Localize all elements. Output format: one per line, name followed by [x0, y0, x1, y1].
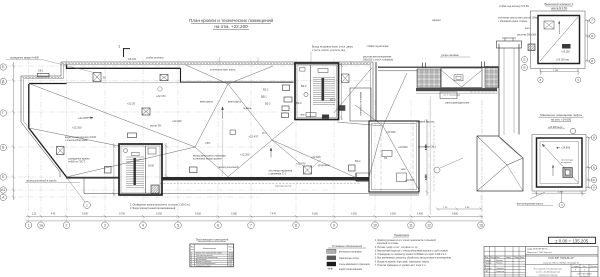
- svg-text:В2-3: В2-3: [296, 101, 302, 105]
- svg-text:Разраб.: Разраб.: [485, 260, 492, 262]
- right wing fan diagonals: [337, 73, 419, 190]
- svg-text:Лист: Лист: [582, 266, 586, 268]
- right part: [525, 255, 598, 277]
- svg-text:Стадия: Стадия: [572, 266, 578, 268]
- svg-text:h=600 по ГОСТ: h=600 по ГОСТ: [68, 161, 85, 164]
- svg-text:4.520: 4.520: [425, 174, 427, 180]
- left dimension line: [12, 62, 15, 200]
- svg-text:переход. мостик: переход. мостик: [275, 186, 292, 188]
- svg-text:на кровлю: на кровлю: [561, 162, 572, 164]
- svg-text:вентиляционная шахта: вентиляционная шахта: [517, 203, 543, 206]
- svg-text:стены машинного отделения: стены машинного отделения: [339, 264, 370, 266]
- svg-text:8: 8: [295, 224, 297, 228]
- technical room inner walls (axes 9-10): [334, 68, 372, 121]
- svg-text:В2-4: В2-4: [355, 159, 361, 163]
- svg-text:СК-1: СК-1: [38, 70, 44, 73]
- svg-text:7.90: 7.90: [229, 265, 233, 267]
- svg-text:стойка под антенны: стойка под антенны: [367, 45, 389, 48]
- svg-text:4.800: 4.800: [558, 192, 564, 194]
- extra vent unit near axis 3: [93, 73, 101, 82]
- svg-text:Н.контр.: Н.контр.: [485, 268, 493, 270]
- svg-text:11: 11: [409, 224, 413, 228]
- section mark 1: [124, 48, 131, 57]
- svg-text:7: 7: [191, 265, 192, 267]
- svg-text:В: В: [591, 34, 593, 38]
- machine room wing (axes 10-12): [356, 121, 419, 195]
- svg-text:В2-2: В2-2: [301, 84, 307, 88]
- svg-text:Б: Б: [593, 166, 595, 170]
- svg-text:с электрообогревом: с электрообогревом: [65, 139, 88, 142]
- svg-text:+22.470: +22.470: [156, 94, 166, 98]
- svg-text:ограждение кровли h=600: ограждение кровли h=600: [10, 57, 40, 60]
- svg-text:+24.600: +24.600: [386, 130, 396, 134]
- svg-text:№док: №док: [506, 256, 511, 259]
- room table: [190, 238, 234, 268]
- corridor with V bracing: [441, 68, 482, 88]
- svg-text:Сидоров: Сидоров: [496, 268, 504, 270]
- grid axes horizontal lines: [7, 66, 370, 197]
- svg-text:± 0.00 = 135.205: ± 0.00 = 135.205: [555, 238, 589, 243]
- svg-text:на отм. +22.200: на отм. +22.200: [214, 24, 248, 29]
- svg-text:помещ.: помещ.: [243, 107, 252, 110]
- svg-text:1. Кровля рулонная из 2-х слое: 1. Кровля рулонная из 2-х слоев техноэла…: [375, 239, 437, 242]
- wing right dimension line: [425, 119, 434, 196]
- svg-text:помещение и башни): помещение и башни): [539, 275, 558, 277]
- svg-text:котельной выше кровли: котельной выше кровли: [193, 156, 222, 160]
- svg-text:Провер.: Провер.: [485, 263, 493, 265]
- svg-text:вентшахта: вентшахта: [200, 101, 213, 104]
- crosshatch block right: [485, 67, 498, 88]
- svg-text:на отм. +22.200 (машинное: на отм. +22.200 (машинное: [536, 272, 560, 274]
- svg-text:13: 13: [479, 224, 483, 228]
- svg-text:Б: Б: [591, 59, 593, 63]
- svg-text:3: 3: [104, 224, 106, 228]
- bottom thick band: [66, 177, 369, 183]
- hip roof pavilion: [477, 136, 523, 191]
- grid circles: [522, 57, 528, 63]
- crosshatch walkway block left: [417, 69, 441, 88]
- ventilation shaft tower: [497, 38, 522, 136]
- svg-text:8.600: 8.600: [452, 213, 458, 215]
- notes: [375, 233, 452, 267]
- svg-text:В: В: [523, 66, 525, 70]
- grid axes vertical lines: [29, 58, 482, 221]
- svg-text:5: 5: [177, 224, 179, 228]
- shaft crosshatch connection: [470, 88, 499, 92]
- svg-text:уклон 3%: уклон 3%: [150, 124, 162, 128]
- lower roof bottom edge: [84, 177, 419, 194]
- svg-text:СЛ-100: СЛ-100: [128, 58, 137, 61]
- svg-text:В2-3: В2-3: [265, 102, 271, 106]
- svg-text:парапетные плиты: парапетные плиты: [339, 258, 359, 260]
- svg-text:газоход котельной в коробе: газоход котельной в коробе: [26, 180, 57, 183]
- svg-text:Смирнов: Смирнов: [496, 271, 504, 273]
- title block: [484, 247, 598, 277]
- svg-text:350х350 с утепл. клапаном: 350х350 с утепл. клапаном: [363, 58, 393, 61]
- detail 1: top right plan: [528, 2, 595, 83]
- svg-text:посыпкой по стяжке.: посыпкой по стяжке.: [377, 242, 399, 245]
- svg-text:ур.к.: ур.к.: [262, 132, 268, 135]
- svg-text:шифр 2008-ПИР-АР-01: шифр 2008-ПИР-АР-01: [527, 248, 547, 251]
- stair core lower (axes 4): [112, 143, 162, 196]
- svg-text:Г: Г: [2, 111, 4, 115]
- svg-text:Листов: Листов: [590, 266, 596, 268]
- svg-text:машинное отделение: машинное отделение: [359, 92, 362, 117]
- leader circle near axis B: [84, 202, 91, 209]
- svg-text:+22.620: +22.620: [311, 155, 321, 159]
- svg-text:Петров: Петров: [496, 263, 502, 265]
- bottom dimension line: [26, 215, 483, 221]
- svg-text:+23.600: +23.600: [405, 178, 415, 182]
- vent units on main roof: [38, 73, 356, 174]
- svg-text:с обшивкой оцинк. сталью: с обшивкой оцинк. сталью: [498, 20, 527, 23]
- svg-text:6.300: 6.300: [156, 213, 162, 215]
- title: plan caption: [189, 17, 274, 30]
- svg-text:7: 7: [250, 224, 252, 228]
- svg-text:с лестн. клетки, утеплить люк: с лестн. клетки, утеплить люк: [312, 49, 346, 52]
- detail 2: machine room plan: [517, 113, 597, 208]
- svg-text:Примечания:: Примечания:: [394, 233, 410, 237]
- level box: [549, 237, 596, 243]
- svg-text:Лифтовая шахта: Лифтовая шахта: [196, 264, 212, 267]
- svg-text:+24.600 верх: +24.600 верх: [548, 126, 563, 129]
- parapet insulation dashes top: [62, 62, 372, 64]
- svg-text:+23.150 низ: +23.150 низ: [556, 58, 569, 61]
- svg-text:Наименование: Наименование: [203, 248, 216, 250]
- svg-text:пл. 1 люк-выход: пл. 1 люк-выход: [444, 95, 461, 97]
- svg-text:В: В: [593, 136, 595, 140]
- svg-text:+22.200: +22.200: [78, 116, 88, 120]
- svg-text:i=3%: i=3%: [205, 142, 211, 145]
- svg-text:5.450: 5.450: [417, 213, 423, 215]
- svg-text:6. Выход на кровлю через маш.: 6. Выход на кровлю через маш. помещение …: [375, 260, 430, 263]
- svg-text:ГАЛС ВЛГ ПАНЕЛЬ.АР: ГАЛС ВЛГ ПАНЕЛЬ.АР: [548, 257, 574, 260]
- svg-text:стойка антенны: стойка антенны: [146, 57, 164, 60]
- svg-text:9: 9: [584, 270, 585, 272]
- svg-text:План кровли и технических пом.: План кровли и технических пом.: [534, 269, 563, 271]
- svg-text:стремянка С-1: стремянка С-1: [269, 171, 287, 175]
- leader texts upper area: [10, 45, 393, 210]
- svg-text:+24.600: +24.600: [561, 147, 571, 150]
- svg-text:В2-6: В2-6: [330, 98, 336, 102]
- svg-text:Л2: Л2: [384, 156, 388, 160]
- small level texts on roof: [72, 76, 415, 188]
- svg-text:2. Уклоны: цифр. в тыс., согла: 2. Уклоны: цифр. в тыс., согласно пл. ск…: [375, 246, 419, 249]
- svg-text:+22.26: +22.26: [127, 102, 136, 106]
- svg-text:стойка под антенну h=2.5м: стойка под антенну h=2.5м: [499, 5, 529, 8]
- svg-text:7. Отметки приведены от уровня: 7. Отметки приведены от уровня чист. пол…: [375, 265, 427, 267]
- svg-text:6: 6: [217, 224, 219, 228]
- svg-text:Выносной элемент 1: Выносной элемент 1: [545, 2, 574, 6]
- parapet tick marks above: [423, 62, 485, 69]
- svg-text:5. Все деревянные элементы обр: 5. Все деревянные элементы обработать ан…: [375, 258, 452, 260]
- left grid circles: [0, 64, 6, 201]
- svg-text:+22.200: +22.200: [72, 126, 82, 130]
- svg-text:стремянка СМ-1: стремянка СМ-1: [418, 146, 437, 149]
- roof valley diagonals: [29, 65, 356, 178]
- svg-text:План кровли и технических поме: План кровли и технических помещений: [189, 17, 274, 23]
- svg-text:10: 10: [373, 224, 377, 228]
- stair core upper (axes 8-9): [295, 63, 343, 120]
- detail1 grid circles: [590, 18, 595, 23]
- svg-text:водосточная воронка: водосточная воронка: [339, 269, 362, 271]
- svg-text:7.470: 7.470: [270, 213, 276, 215]
- svg-text:ур.кровли: ур.кровли: [318, 164, 330, 167]
- svg-text:Созвоние 738 сек. 2009 ул. Пет: Созвоние 738 сек. 2009 ул. Петербург 41: [543, 263, 579, 265]
- svg-text:1.25: 1.25: [32, 213, 37, 215]
- svg-text:упоры снеговые: упоры снеговые: [441, 54, 460, 57]
- svg-text:4. Ограждение по периметру кро: 4. Ограждение по периметру кровли h=600м…: [375, 254, 447, 256]
- svg-text:вентшахта: вентшахта: [228, 101, 241, 104]
- svg-text:1: 1: [28, 224, 30, 228]
- svg-text:4.45: 4.45: [51, 213, 56, 215]
- gallery band to detail (axes 12-13): [376, 57, 528, 122]
- svg-text:4: 4: [142, 224, 144, 228]
- svg-text:ходовой мостик: ходовой мостик: [416, 121, 434, 124]
- svg-text:12: 12: [427, 224, 431, 228]
- svg-text:+25.150: +25.150: [561, 51, 570, 54]
- svg-text:решетка 500х500: решетка 500х500: [517, 34, 537, 37]
- svg-text:3. Внутренний водосток с элект: 3. Внутренний водосток с электрообогрево…: [375, 249, 449, 252]
- svg-text:В1: В1: [103, 76, 107, 80]
- main roof inner thick wall: [29, 65, 294, 178]
- svg-text:9: 9: [333, 224, 335, 228]
- svg-text:6.300: 6.300: [312, 213, 318, 215]
- svg-text:1а: 1а: [39, 224, 43, 228]
- walk bridge box: [440, 92, 457, 99]
- svg-text:газоход котельной: газоход котельной: [218, 166, 239, 169]
- svg-text:шахта М 1:50: шахта М 1:50: [551, 6, 568, 10]
- svg-text:утеплитель мин. плита: утеплитель мин. плита: [210, 69, 236, 72]
- lower stair side dimension: [165, 143, 168, 177]
- svg-text:Иванов: Иванов: [496, 260, 503, 262]
- detail2 grid circles: [591, 135, 596, 140]
- svg-text:Б: Б: [524, 58, 526, 62]
- svg-text:Изменение 1 2009 Твер.обл.: Изменение 1 2009 Твер.обл.: [527, 252, 552, 254]
- svg-text:5.380: 5.380: [231, 213, 237, 215]
- svg-text:Подп: Подп: [514, 257, 519, 259]
- svg-text:А1: А1: [592, 178, 596, 182]
- svg-text:А1: А1: [1, 188, 5, 192]
- svg-text:+23.600: +23.600: [398, 145, 408, 149]
- dim under pavilion: [436, 208, 483, 211]
- svg-text:на отм. +24.600: на отм. +24.600: [551, 117, 572, 121]
- left small grid rows: [484, 247, 525, 277]
- svg-text:6.000: 6.000: [390, 213, 396, 215]
- roof drain center marker: [230, 130, 236, 135]
- svg-text:Лист: Лист: [496, 257, 500, 259]
- svg-text:Условные обозначения: Условные обозначения: [332, 244, 363, 248]
- svg-text:18.60: 18.60: [148, 165, 155, 168]
- leader circle 14: [434, 167, 440, 173]
- svg-text:парапет: парапет: [432, 19, 442, 22]
- bottom dimension numbers: [32, 213, 459, 215]
- pavilion centerline: [481, 100, 483, 232]
- svg-text:пом.: пом.: [191, 249, 195, 251]
- svg-text:2: 2: [66, 224, 68, 228]
- bottom grid circles: [25, 222, 484, 229]
- svg-text:шахта дымоудаления: шахта дымоудаления: [445, 102, 470, 105]
- leader texts right top area: [416, 5, 539, 149]
- svg-text:6.300: 6.300: [195, 213, 201, 215]
- svg-text:ВД-1: ВД-1: [261, 95, 267, 99]
- svg-text:5.700: 5.700: [119, 213, 125, 215]
- svg-text:+22.200: +22.200: [172, 119, 182, 123]
- leader stems on top edge: [6, 52, 351, 73]
- svg-text:+22.470: +22.470: [296, 162, 306, 166]
- lower band: [416, 88, 497, 91]
- svg-text:вентшахты на кровле: вентшахты на кровле: [339, 251, 363, 253]
- slope arrows: [87, 107, 272, 176]
- svg-text:В2-2: В2-2: [263, 88, 269, 92]
- svg-text:Экспликация помещений: Экспликация помещений: [196, 238, 229, 242]
- svg-text:2. Водосток внутренний организ: 2. Водосток внутренний организованный: [130, 207, 176, 210]
- main roof outer parapet outline: [21, 62, 373, 177]
- svg-text:Конс.: Конс.: [485, 265, 490, 267]
- svg-text:+22.470: +22.470: [249, 134, 259, 138]
- svg-text:+22.200: +22.200: [240, 153, 250, 157]
- legend: [327, 244, 371, 271]
- svg-text:6.300: 6.300: [351, 213, 357, 215]
- svg-text:А: А: [593, 186, 595, 190]
- svg-text:6.300: 6.300: [82, 213, 88, 215]
